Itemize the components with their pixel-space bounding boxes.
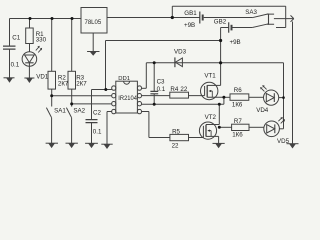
svg-text:VT2: VT2 xyxy=(205,114,217,121)
svg-text:R4: R4 xyxy=(170,86,178,93)
svg-text:78L05: 78L05 xyxy=(85,20,102,26)
svg-text:VD5: VD5 xyxy=(277,138,290,145)
svg-text:+9В: +9В xyxy=(230,39,241,46)
svg-text:1К6: 1К6 xyxy=(232,132,243,139)
svg-text:22: 22 xyxy=(180,86,187,93)
svg-text:VT1: VT1 xyxy=(204,72,216,79)
svg-text:0.1: 0.1 xyxy=(93,129,102,136)
svg-text:+9В: +9В xyxy=(184,22,195,29)
svg-text:0.1: 0.1 xyxy=(11,62,20,69)
svg-text:SA3: SA3 xyxy=(245,9,257,16)
svg-text:VD4: VD4 xyxy=(256,107,269,114)
svg-text:330: 330 xyxy=(36,37,47,44)
svg-text:IR2104: IR2104 xyxy=(118,95,137,102)
svg-text:SA2: SA2 xyxy=(73,108,85,115)
svg-text:1К6: 1К6 xyxy=(232,102,243,109)
svg-text:C2: C2 xyxy=(93,110,101,117)
svg-text:0.1: 0.1 xyxy=(157,86,166,93)
svg-text:C3: C3 xyxy=(157,79,165,86)
svg-text:DD1: DD1 xyxy=(118,76,130,82)
svg-text:R5: R5 xyxy=(172,129,180,136)
svg-text:2К7: 2К7 xyxy=(76,80,87,87)
svg-text:GB1: GB1 xyxy=(184,10,197,17)
svg-text:2К7: 2К7 xyxy=(58,80,69,87)
svg-text:GB2: GB2 xyxy=(214,19,227,26)
svg-text:VD3: VD3 xyxy=(174,49,187,56)
svg-text:C1: C1 xyxy=(12,35,20,42)
svg-text:VD1: VD1 xyxy=(36,74,49,81)
svg-text:SA1: SA1 xyxy=(54,108,66,115)
svg-text:R6: R6 xyxy=(234,87,242,94)
svg-text:22: 22 xyxy=(172,142,179,149)
svg-text:R7: R7 xyxy=(234,118,242,125)
